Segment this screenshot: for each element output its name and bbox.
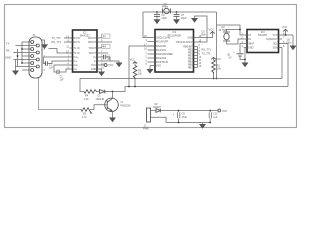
crystal Q2 — [223, 32, 230, 41]
wire V- row to ground arrow — [100, 61, 119, 63]
ground arrow below T1 — [109, 118, 116, 123]
wire X1 shield to ground arrow — [42, 40, 45, 44]
svg-text:2.2k: 2.2k — [84, 98, 89, 101]
wire emitter drop — [112, 111, 114, 117]
wire SDA bus — [80, 78, 282, 80]
node collector junction — [112, 91, 114, 93]
wire R1 to SDA bus — [213, 74, 215, 79]
wire Q2 top to X1 pin — [227, 30, 244, 36]
svg-text:MCLR/VPP: MCLR/VPP — [156, 41, 169, 44]
svg-text:VCC: VCC — [216, 57, 222, 61]
capacitor C6 — [156, 12, 158, 19]
wire GND pin 15 drop — [100, 69, 102, 72]
svg-text:4MHz: 4MHz — [162, 6, 169, 9]
ground arrow below IC1 GND — [98, 72, 105, 77]
svg-text:VCC: VCC — [91, 64, 96, 67]
wire stub T2OUT — [100, 52, 108, 54]
wire battery to ground — [240, 56, 245, 60]
svg-text:DS1307: DS1307 — [258, 33, 268, 37]
ground arrow right of IC3 — [290, 46, 297, 51]
wire R2 to SCL bus — [134, 80, 136, 87]
node C10 top — [209, 110, 211, 112]
capacitor C9 electrolytic — [178, 111, 180, 123]
IC1 pin names right — [88, 37, 97, 71]
svg-text:RA3/AN3: RA3/AN3 — [156, 57, 167, 60]
IC2 left pin stubs — [148, 38, 156, 66]
svg-text:R2OUT: R2OUT — [88, 41, 97, 44]
VCC symbol at supply — [218, 109, 221, 112]
capacitor C2 wiring — [54, 65, 70, 72]
wire VBAT to battery — [240, 44, 244, 54]
svg-text:T1OUT: T1OUT — [88, 47, 96, 50]
svg-text:T2 IN: T2 IN — [74, 52, 80, 55]
wire SDA bus left drop — [80, 79, 84, 92]
ground arrow below C7 — [173, 19, 180, 24]
flag RX_TTL at IC1 T1OUT — [100, 46, 102, 49]
flag TX_TTL at IC1 R1OUT — [100, 36, 102, 39]
svg-text:SQW/OUT: SQW/OUT — [266, 38, 278, 41]
svg-text:RX_TTL: RX_TTL — [202, 48, 212, 52]
svg-text:GND: GND — [5, 56, 11, 60]
svg-text:VCC: VCC — [108, 63, 114, 67]
resistor R4 series — [84, 90, 97, 94]
svg-text:RX_TTL: RX_TTL — [52, 40, 62, 44]
svg-text:RX: RX — [103, 45, 107, 49]
diode D1 — [100, 90, 105, 94]
svg-text:SDA: SDA — [273, 47, 278, 50]
svg-text:RA0/AN0: RA0/AN0 — [156, 45, 167, 48]
capacitor C10 — [209, 111, 211, 123]
wire C8 drop — [292, 35, 294, 46]
connector X1 DB9 body — [29, 37, 42, 78]
wire TX_TTL to IC1 R1IN — [64, 37, 73, 39]
svg-text:VCC: VCC — [282, 25, 288, 29]
IC2 pin numbers right — [199, 35, 202, 68]
op IC3 DS1307 body — [247, 30, 279, 53]
IC1 left pin stubs — [70, 38, 73, 69]
VCC symbol at IC1 pin 16 — [100, 64, 104, 66]
X1 pin lead wires — [14, 42, 37, 70]
wire link from crystal riser — [217, 25, 241, 30]
svg-text:VCC: VCC — [209, 27, 215, 31]
svg-text:PWR: PWR — [143, 127, 149, 130]
svg-text:C2-: C2- — [74, 68, 78, 71]
ground arrow below battery — [242, 63, 249, 68]
capacitor C1 wiring — [44, 57, 70, 64]
wire RA0 riser to SCL bus — [129, 46, 155, 87]
svg-text:TX: TX — [6, 42, 10, 46]
svg-text:R1OUT: R1OUT — [88, 37, 97, 40]
node C9 top — [178, 110, 180, 112]
svg-text:C1+: C1+ — [74, 56, 79, 59]
svg-text:R2 IN: R2 IN — [74, 41, 80, 44]
wire crystal net top — [143, 11, 217, 13]
wire GND drop — [15, 60, 17, 71]
ground arrow below C6 — [154, 19, 161, 24]
node riser junction on SDA bus — [216, 78, 218, 80]
svg-text:VSS: VSS — [156, 65, 161, 68]
wire SDA riser — [281, 48, 283, 79]
crystal Q1 — [163, 9, 171, 14]
svg-text:VDD: VDD — [188, 37, 193, 40]
IC3 pin numbers — [241, 32, 243, 48]
svg-text:GND: GND — [248, 47, 254, 50]
svg-text:OSC1/CLKIN: OSC1/CLKIN — [156, 37, 170, 40]
svg-text:3V: 3V — [229, 57, 232, 60]
wire base chain from X1 — [39, 78, 82, 110]
wire GND pin drop — [244, 48, 246, 63]
svg-text:RA1/AN1: RA1/AN1 — [156, 49, 167, 52]
IC2 pin names left — [156, 37, 174, 68]
ground arrow on OSC2 net — [191, 18, 198, 23]
wire RX_TTL to IC1 R2IN — [64, 41, 73, 43]
svg-text:RB7: RB7 — [188, 67, 193, 70]
svg-text:VCC: VCC — [130, 59, 135, 62]
svg-text:OSC2/CLKOUT: OSC2/CLKOUT — [176, 41, 193, 44]
VCC symbol at IC2 VDD — [198, 32, 213, 38]
ground arrow right of IC1 — [116, 63, 123, 68]
wire Q2 bottom to X2 pin — [227, 39, 244, 44]
svg-text:100n: 100n — [201, 34, 207, 37]
capacitor C7 — [176, 12, 178, 19]
svg-text:VBAT: VBAT — [248, 43, 255, 46]
svg-text:V-: V- — [94, 60, 96, 63]
wire ground return — [166, 123, 210, 125]
IC1 pin names left — [74, 37, 80, 71]
svg-text:4.7k: 4.7k — [82, 116, 87, 119]
transistor T1 — [105, 98, 119, 112]
ground arrow near X1 — [41, 44, 48, 49]
wire SCL riser — [282, 44, 288, 87]
svg-text:1uF: 1uF — [107, 58, 112, 61]
svg-text:1uF: 1uF — [60, 78, 65, 81]
wire collector riser — [112, 92, 114, 99]
capacitor C3 on V+ — [100, 57, 110, 61]
IC3 pin names — [248, 34, 255, 50]
svg-text:1N4148: 1N4148 — [96, 98, 105, 101]
wire OSC1 riser — [143, 12, 148, 38]
IC2 pin numbers left — [144, 35, 147, 66]
wire TX lead — [14, 52, 16, 54]
wire R3 to base — [90, 105, 105, 110]
svg-text:GND: GND — [91, 68, 97, 71]
svg-text:1uF: 1uF — [49, 67, 54, 70]
svg-text:RA2/AN2/VREF: RA2/AN2/VREF — [156, 53, 174, 56]
svg-text:VCC: VCC — [273, 34, 278, 37]
ground arrow power section — [199, 124, 206, 129]
wire R4 to D1 — [97, 91, 100, 93]
svg-text:22pF: 22pF — [162, 17, 168, 20]
power jack J1 — [147, 108, 151, 122]
IC1 pin numbers right — [101, 35, 104, 69]
svg-text:1uF: 1uF — [213, 116, 218, 119]
IC2 pin names right — [176, 37, 194, 70]
capacitor C2 plates — [57, 70, 59, 75]
IC3 right pin stubs — [279, 35, 283, 48]
wire main supply — [160, 110, 218, 112]
wire D1 to SCL bus drop — [105, 87, 125, 92]
wire SCL bus — [125, 86, 288, 88]
wire VSS drop — [149, 66, 151, 70]
wire jack return — [151, 117, 167, 122]
X1 pin number marks — [44, 41, 46, 72]
wire base lead — [105, 104, 108, 106]
IC2 right pin stubs — [194, 38, 198, 68]
ground symbol below X1 — [12, 71, 19, 76]
node crystal right junction — [176, 11, 178, 13]
node crystal left junction — [156, 11, 158, 13]
svg-text:TX: TX — [103, 34, 107, 38]
resistor R3 series — [81, 108, 92, 113]
wire X1 to T2IN of IC1 — [49, 49, 73, 54]
junction dots on X1 leads — [21, 48, 23, 50]
ground arrow below IC2 VSS — [147, 69, 154, 74]
svg-text:T1 IN: T1 IN — [74, 47, 80, 50]
svg-text:SCL: SCL — [273, 43, 278, 46]
wire stub R2OUT — [100, 41, 112, 43]
op IC2 PIC16F628 body — [155, 30, 194, 73]
svg-text:TX_TTL: TX_TTL — [52, 36, 62, 40]
wire RB bus vertical — [197, 47, 199, 68]
svg-text:100n: 100n — [286, 42, 292, 45]
svg-text:PN2222A: PN2222A — [120, 104, 131, 107]
capacitor C1 plates — [46, 61, 48, 66]
IC3 left pin stubs — [244, 35, 248, 48]
op IC1 MAX232 body — [73, 30, 98, 72]
svg-text:C2+: C2+ — [74, 64, 79, 67]
wire OSC2 riser — [195, 16, 208, 42]
svg-text:1N4007: 1N4007 — [153, 106, 162, 109]
wire long riser to SDA bus — [216, 12, 218, 79]
svg-text:R1 IN: R1 IN — [74, 37, 80, 40]
svg-text:VCC: VCC — [222, 110, 227, 113]
svg-text:TX_TTL: TX_TTL — [202, 51, 212, 55]
X1 pin circles column 1 — [31, 41, 34, 72]
svg-text:47uF: 47uF — [182, 116, 188, 119]
diode D2 — [153, 110, 156, 112]
wire tie verticals on X1 leads — [18, 42, 23, 67]
svg-text:C1-: C1- — [74, 60, 78, 63]
IC1 pin numbers left — [66, 35, 69, 69]
X1 pin circles column 2 — [36, 44, 39, 68]
svg-text:T2OUT: T2OUT — [88, 52, 96, 55]
IC1 right pin stubs — [97, 38, 100, 69]
svg-text:22pF: 22pF — [181, 17, 187, 20]
svg-text:RX: RX — [6, 49, 10, 53]
VCC symbol at IC3 — [282, 29, 293, 35]
